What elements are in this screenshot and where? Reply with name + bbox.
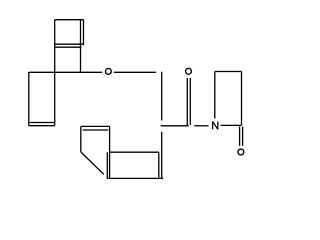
wire: O to carbon bond: [114, 71, 156, 73]
wire: rect top edge: [110, 151, 159, 153]
wire: bottom-left ring left edge: [28, 72, 30, 126]
wire: double bond partner right of top-left ring: [83, 20, 85, 46]
wire: right C=O double line left: [239, 127, 241, 146]
wire: top-left ring bottom edge: [55, 46, 81, 48]
wire: double bond partner above bottom edge: [55, 43, 84, 45]
wire: right C=O double line right: [242, 127, 244, 146]
node N amide nitrogen: [213, 122, 218, 130]
wire: middle C=O double line right: [189, 78, 191, 125]
wire: long horizontal bond to O: [29, 71, 103, 73]
wire: N to right carbonyl C: [221, 124, 242, 126]
wire: left ladder long vertical: [54, 20, 56, 126]
wire: pentagon/rect shared vertical: [109, 126, 111, 178]
wire: N-ring top edge: [215, 71, 242, 73]
wire: top-left ring top edge: [55, 19, 84, 21]
wire: carbonyl C to N horizontal: [194, 125, 208, 127]
wire: double bond partner above bottom-left ring bottom: [30, 122, 55, 124]
node O3 right carbonyl oxygen: [238, 149, 244, 155]
wire: rect left double partner: [106, 152, 108, 178]
wire: pentagon left edge: [80, 126, 82, 152]
wire: bottom-left ring bottom edge: [29, 125, 55, 127]
wire: N-ring left edge: [214, 72, 216, 119]
node O2 middle carbonyl oxygen: [186, 68, 192, 74]
wire: pentagon diagonal: [81, 152, 104, 174]
node O1 ether oxygen: [105, 68, 111, 74]
wire: pentagon top double partner: [83, 129, 109, 131]
wire: middle C=O double line left: [186, 78, 188, 126]
wire: top-left ring right edge: [80, 20, 82, 72]
wire: vertical carbon chain upper: [161, 72, 163, 121]
wire: pentagon top edge: [81, 125, 110, 127]
wire: C to carbonyl C horizontal: [161, 125, 189, 127]
wire: N-ring right edge: [241, 72, 243, 126]
wire: vertical carbon chain lower: [161, 132, 163, 179]
wire: rect right double partner: [158, 152, 160, 177]
wire: rect bottom edge: [107, 177, 163, 179]
